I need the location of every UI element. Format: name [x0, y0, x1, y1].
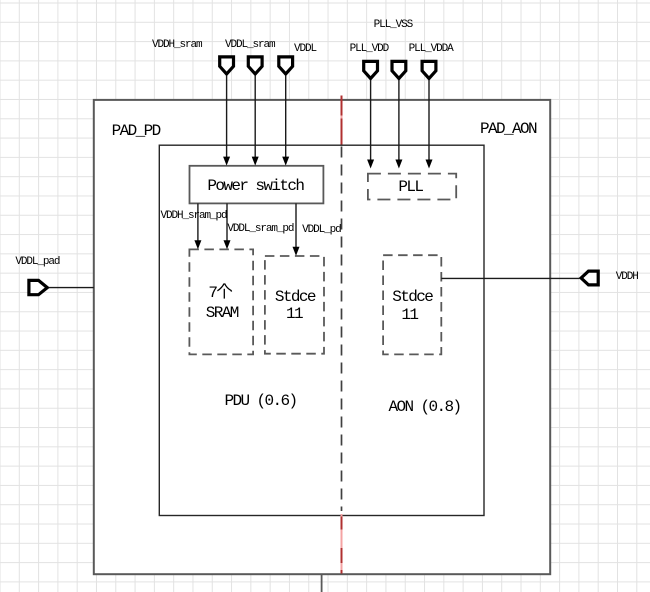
glyph ge (7 ge SRAM) — [217, 283, 231, 298]
wire VDDL_sram_pd Power switch to SRAM — [224, 203, 231, 249]
wire Stdce AON to VDDH — [441, 277, 579, 279]
port VDDL — [279, 57, 293, 74]
label VDDL_sram — [225, 40, 275, 51]
port PLL_VDDA2 — [422, 61, 436, 78]
block core inner boundary — [159, 145, 484, 515]
domain separator red line top segment — [341, 96, 343, 145]
label Stdce PDU — [275, 289, 315, 305]
port VDDL_pad — [29, 280, 47, 294]
block Power switch — [190, 166, 324, 204]
label PDU (0.6) — [225, 393, 297, 409]
label SRAM — [206, 305, 238, 321]
wire VDDH_sram_pd Power switch to SRAM — [194, 203, 201, 249]
label VDDL_pd — [302, 225, 341, 236]
wire PLL_VDDA2 to PLL — [426, 80, 433, 169]
label PLL_VSS — [374, 20, 413, 31]
wire VDDL_pd Power switch to Stdce — [293, 203, 300, 255]
label VDDH_sram — [152, 40, 202, 51]
wire VDDL_sram to Power switch — [252, 76, 259, 166]
label VDDL_pad — [15, 257, 59, 268]
block Stdce 11 PDU (dashed) — [265, 256, 324, 354]
port VDDH_sram — [220, 57, 234, 74]
block PAD outer boundary (PAD_PD / PAD_AON) — [94, 100, 550, 574]
domain separator dashed line (PDU | AON) — [341, 147, 343, 512]
label PLL — [398, 179, 422, 195]
block Stdce 11 AON (dashed) — [383, 255, 441, 354]
label VDDL — [294, 44, 316, 55]
wire bottom stub — [321, 575, 323, 592]
label PLL_VDD — [350, 44, 389, 55]
port VDDH — [581, 271, 598, 285]
label PAD_AON — [480, 121, 536, 137]
label AON (0.8) — [389, 399, 461, 415]
port PLL_VDD — [364, 61, 378, 78]
label VDDL_sram_pd — [227, 224, 293, 235]
label 11 PDU — [286, 306, 302, 322]
wire VDDL to Power switch — [282, 76, 289, 166]
label VDDH_sram_pd — [161, 211, 227, 222]
label Stdce AON — [392, 289, 432, 305]
label 11 AON — [401, 307, 417, 323]
wire PLL_VDD to PLL — [367, 80, 374, 169]
wire PLL_VDDA to PLL — [395, 80, 402, 169]
wire VDDH_sram to Power switch — [223, 76, 230, 166]
wire VDDL_pad to PAD_PD — [49, 287, 94, 289]
label Power switch — [207, 178, 303, 194]
port PLL_VDDA — [392, 61, 406, 78]
label 7 (7 ge) — [208, 285, 216, 301]
label PLL_VDDA — [409, 44, 453, 55]
label VDDH — [616, 272, 638, 283]
domain separator red line bottom segment — [341, 514, 343, 574]
block PLL (dashed) — [368, 174, 456, 200]
label PAD_PD — [112, 123, 160, 139]
block 7x SRAM (dashed) — [189, 249, 253, 354]
port VDDL_sram — [248, 57, 262, 74]
